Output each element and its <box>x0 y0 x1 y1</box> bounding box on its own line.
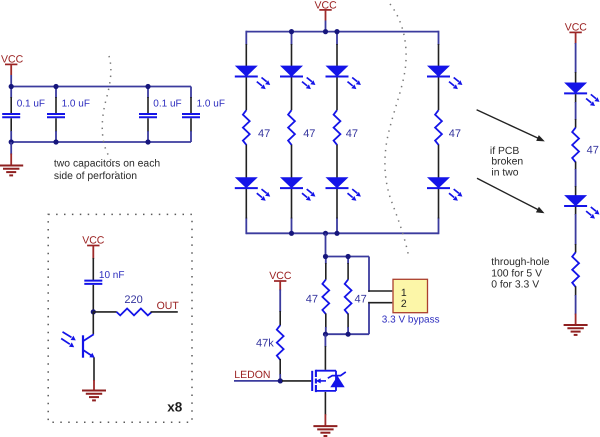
dashed box outline <box>48 214 192 422</box>
lead <box>575 119 577 128</box>
resistor R10 (through-hole) <box>572 252 579 287</box>
LED D9 <box>564 83 599 107</box>
svg-text:3.3 V bypass: 3.3 V bypass <box>382 315 440 326</box>
lead <box>575 207 577 215</box>
svg-text:47: 47 <box>355 293 367 305</box>
capacitor C1 0.1 uF <box>2 87 45 143</box>
LED D6 <box>280 177 315 201</box>
node dots bypass network <box>323 254 351 337</box>
note: through-hole resistor value <box>491 257 550 291</box>
LED D3 <box>326 66 361 90</box>
wire <box>575 214 577 245</box>
power VCC (47k pull-up) <box>269 270 292 290</box>
arrow (lower, if PCB broken) <box>477 178 545 213</box>
power VCC (sub-circuit) <box>82 235 105 259</box>
svg-text:0.1 uF: 0.1 uF <box>17 98 45 109</box>
resistor R1 47 <box>243 110 250 145</box>
svg-text:1: 1 <box>401 287 407 299</box>
perforation dotted line (left) <box>102 56 117 176</box>
column 2: leads <box>291 31 293 235</box>
lead <box>279 311 281 325</box>
power VCC (top-left) <box>1 53 24 75</box>
node dots main block <box>289 29 340 236</box>
wire bottom bus <box>11 141 191 143</box>
lead <box>575 244 577 253</box>
svg-text:1.0 uF: 1.0 uF <box>197 98 225 109</box>
svg-text:side of perforation: side of perforation <box>54 171 137 182</box>
svg-text:1.0 uF: 1.0 uF <box>62 98 90 109</box>
ground (cap bank) <box>0 142 23 175</box>
lead VCC to cap <box>92 258 94 280</box>
svg-text:47k: 47k <box>256 337 274 349</box>
svg-text:220: 220 <box>124 294 142 306</box>
wire main block bottom rail <box>246 232 438 234</box>
wire to connector pin 2 <box>368 302 392 334</box>
svg-text:2: 2 <box>401 298 407 310</box>
wire VCC stub to top rail <box>325 21 327 33</box>
lead gate <box>282 380 311 382</box>
svg-text:in two: in two <box>491 168 518 179</box>
svg-text:0.1 uF: 0.1 uF <box>153 98 181 109</box>
column 3: leads <box>336 31 338 235</box>
wire from block bottom to resistor node <box>325 233 327 257</box>
wire VCC to 47k <box>279 290 281 313</box>
lead <box>575 186 577 196</box>
note: if PCB broken in two <box>490 146 523 179</box>
lead <box>575 286 577 296</box>
capacitor C4 1.0 uF <box>182 87 225 143</box>
resistor R5 47 <box>306 257 329 335</box>
LED D8 <box>427 177 462 201</box>
LED D10 <box>564 195 599 219</box>
power VCC (right column) <box>565 22 588 45</box>
svg-text:broken: broken <box>491 157 523 168</box>
svg-text:47: 47 <box>587 145 599 157</box>
resistor R6 47 <box>345 257 367 335</box>
lead <box>575 162 577 170</box>
node dots cap bank <box>9 84 151 145</box>
resistor R4 47 <box>435 110 442 145</box>
svg-text:10 nF: 10 nF <box>99 270 125 281</box>
lead source <box>324 392 326 415</box>
wire <box>575 169 577 187</box>
wire <box>575 295 577 315</box>
net LEDON <box>234 369 283 381</box>
svg-text:47: 47 <box>306 293 318 305</box>
LED D4 <box>427 66 462 90</box>
column 1: leads <box>245 31 247 235</box>
lead cap to node <box>92 285 94 312</box>
wire VCC to top bus <box>10 75 12 87</box>
resistor R9 47 <box>572 128 579 163</box>
ground (MOSFET source) <box>313 414 337 436</box>
lead drain <box>324 334 326 370</box>
wire top node <box>326 256 370 258</box>
power VCC (main block) <box>315 0 338 21</box>
capacitor C2 1.0 uF <box>47 87 90 143</box>
node dot LEDON <box>278 378 283 383</box>
MOSFET Q2 <box>312 370 346 392</box>
capacitor C3 0.1 uF <box>139 87 182 143</box>
wire to connector pin 1 <box>368 257 392 292</box>
wire top bus <box>11 86 191 88</box>
node dot <box>91 309 96 314</box>
connector J1 3.3 V bypass <box>382 279 440 325</box>
phototransistor Q1 <box>61 312 94 358</box>
resistor R3 47 <box>334 110 341 145</box>
svg-text:0 for 3.3 V: 0 for 3.3 V <box>491 280 539 291</box>
capacitor C5 10 nF <box>84 270 124 284</box>
lead resistor to OUT <box>151 311 178 313</box>
lead <box>575 94 577 103</box>
ground (right column) <box>564 314 588 335</box>
wire stub <box>279 374 281 381</box>
svg-text:100 for 5 V: 100 for 5 V <box>491 268 542 279</box>
LED D7 <box>326 177 361 201</box>
lead 47k to LEDON node <box>279 359 281 375</box>
svg-text:47: 47 <box>303 128 315 140</box>
lead <box>575 72 577 83</box>
perforation dotted line (main) <box>385 4 409 258</box>
arrow (upper, if PCB broken) <box>477 110 545 142</box>
LED D2 <box>280 66 315 90</box>
wire main block top rail <box>246 31 438 33</box>
note: two capacitors on each side of perforation <box>54 158 160 181</box>
svg-text:x8: x8 <box>167 399 183 414</box>
wire bottom node <box>326 333 370 335</box>
svg-text:47: 47 <box>346 128 358 140</box>
svg-text:47: 47 <box>258 128 270 140</box>
svg-text:if PCB: if PCB <box>490 146 520 157</box>
LED D1 <box>235 66 270 90</box>
svg-text:through-hole: through-hole <box>491 257 550 268</box>
svg-text:two capacitors on each: two capacitors on each <box>54 158 160 169</box>
resistor R8 220 <box>117 294 152 315</box>
wire VCC to LED (right col) <box>575 43 577 73</box>
svg-text:LEDON: LEDON <box>234 369 270 381</box>
wire <box>575 102 577 120</box>
svg-text:OUT: OUT <box>157 300 180 312</box>
lead emitter down <box>93 358 95 382</box>
ground (sub-circuit) <box>82 380 106 400</box>
LED D5 <box>235 177 270 201</box>
svg-text:47: 47 <box>449 128 461 140</box>
column 4: leads <box>438 31 440 235</box>
lead node to resistor <box>93 311 116 313</box>
resistor R2 47 <box>288 110 295 145</box>
resistor R7 47k <box>256 325 284 360</box>
